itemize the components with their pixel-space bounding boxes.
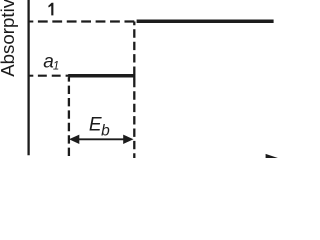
vertical dashed line (left, below a1 step) (68, 77, 70, 158)
label 1 (48, 3, 53, 16)
E_b arrowhead left (69, 135, 79, 144)
E_b arrowhead right (123, 135, 133, 144)
dashed guide line at level 1 (38, 20, 134, 22)
dashed guide line at level a1 (38, 75, 69, 77)
junction dash bridge at step end (133, 75, 135, 80)
y-axis (Absorptivity axis, cropped at top) (27, 0, 29, 155)
svg-text:Absorptivity: Absorptivity (0, 0, 18, 77)
tick at value a1 (29, 75, 34, 77)
x-axis arrowhead (bottom right, cropped) (266, 154, 279, 163)
step segment at level 1 (137, 19, 274, 23)
E_b dimension arrow shaft (79, 138, 125, 140)
vertical dashed line at E_b (right) (133, 22, 135, 159)
step segment at a1 level (68, 74, 135, 78)
tick at value 1 (29, 21, 34, 23)
